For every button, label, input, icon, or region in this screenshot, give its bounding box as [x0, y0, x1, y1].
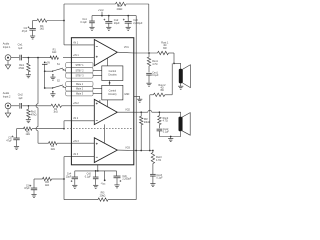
- capacitor Ci1 47uF: [22, 21, 36, 36]
- svg-text:2,200µF: 2,200µF: [133, 22, 143, 25]
- wire GND pin stub: [134, 96, 140, 99]
- label VO1: [124, 46, 129, 49]
- svg-text:20kΩ: 20kΩ: [144, 121, 150, 124]
- ground below Cs5: [93, 185, 98, 188]
- svg-text:1µF: 1µF: [18, 97, 23, 100]
- capacitor Ci3 47uF: [24, 179, 37, 194]
- svg-text:+IN 3: +IN 3: [73, 140, 79, 143]
- label +IN 3 pin: [73, 140, 79, 143]
- wire +Vcc rail: [92, 15, 136, 17]
- label audio input 2: [3, 92, 11, 98]
- resistor R2 1k series: [51, 104, 62, 114]
- wire ch3 bottom feedback rail: [64, 199, 136, 201]
- svg-text:-IN 3: -IN 3: [73, 153, 79, 156]
- svg-text:1kΩ: 1kΩ: [52, 51, 57, 54]
- ground below zobel 1: [146, 83, 151, 86]
- ground below S1: [50, 74, 55, 80]
- label +IN 2 pin: [73, 102, 79, 105]
- wire Ri1/Ci1 row: [33, 20, 64, 22]
- ground at GND pin: [137, 99, 142, 102]
- ground below Cs4: [72, 185, 77, 188]
- label audio input 1: [3, 42, 11, 48]
- label -IN 3 pin: [73, 153, 79, 156]
- svg-text:4.7Ω: 4.7Ω: [163, 120, 168, 123]
- svg-text:VO1: VO1: [124, 46, 129, 49]
- svg-text:Mute 1: Mute 1: [76, 83, 84, 86]
- wire speaker 2 bottom: [159, 131, 180, 136]
- svg-text:0.1µF: 0.1µF: [152, 74, 159, 77]
- svg-text:47µF: 47µF: [22, 30, 28, 33]
- svg-text:Circuitry: Circuitry: [108, 93, 117, 96]
- wire control2 to A2 a: [99, 100, 101, 103]
- wire +Vcc down right side: [135, 16, 137, 200]
- svg-text:20kΩ: 20kΩ: [100, 194, 106, 197]
- label +Vcc terminal: [98, 8, 105, 16]
- wire A1 output: [117, 51, 134, 54]
- wire -Vcc rail: [75, 170, 117, 172]
- ground below zobel 3: [150, 184, 155, 187]
- wire to speaker 1: [173, 53, 181, 69]
- A1 minus marker: [96, 45, 98, 47]
- capacitor Cs1 0.1uF: [80, 16, 94, 27]
- connector RCA jack 2: [5, 103, 11, 109]
- ground below Cs6: [114, 185, 119, 188]
- svg-text:4.7Ω: 4.7Ω: [156, 159, 161, 162]
- label VO2: [125, 108, 130, 111]
- svg-text:1kΩ: 1kΩ: [53, 111, 58, 114]
- wire feedback ch1 right riser: [148, 4, 150, 52]
- resistor Ri2 1k: [24, 127, 33, 136]
- svg-text:0.1µF: 0.1µF: [156, 177, 163, 180]
- label VO3: [125, 146, 130, 149]
- wire to switch S1: [45, 70, 53, 72]
- svg-text:47µF: 47µF: [24, 187, 30, 190]
- capacitor Csn2 0.1uF zobel: [157, 128, 170, 137]
- wire -IN1 vertical: [63, 4, 65, 45]
- svg-text:0.1µF: 0.1µF: [163, 131, 170, 134]
- svg-text:-IN 1: -IN 1: [73, 41, 79, 44]
- label -IN 1 pin: [73, 41, 79, 44]
- wire control2 to A2 b: [107, 100, 109, 107]
- wire A2 output: [117, 111, 134, 113]
- wire A2 input stubs: [71, 106, 94, 121]
- wire A3 input stubs: [71, 143, 94, 156]
- svg-text:4.7Ω: 4.7Ω: [152, 63, 157, 66]
- ground below jack 1: [5, 61, 10, 70]
- ground below Ci1: [30, 36, 35, 39]
- node input1 junction a: [28, 57, 30, 59]
- wire A2 to A3 link: [104, 124, 106, 142]
- svg-text:Mute 3: Mute 3: [76, 93, 84, 96]
- capacitor Cs4 10uF: [66, 171, 78, 185]
- wire input 2 row: [11, 105, 72, 107]
- pin Mute 1: [66, 82, 93, 87]
- block control circuitry 2: [102, 85, 123, 100]
- svg-text:-Vcc: -Vcc: [101, 183, 107, 186]
- svg-text:+IN 1: +IN 1: [73, 54, 79, 57]
- svg-text:+Vcc: +Vcc: [98, 8, 105, 12]
- speaker SPK2: [179, 113, 191, 136]
- wire capsules to control box 1: [93, 70, 102, 75]
- pin Mute 2: [66, 86, 93, 91]
- wire VO1 row: [134, 52, 174, 54]
- capacitor Cs5 0.1uF: [85, 170, 99, 185]
- ground speaker2 zobel2: [168, 136, 173, 142]
- A2 minus marker: [96, 120, 98, 122]
- wire to switch S2: [45, 87, 53, 89]
- wire capsules to control box 2: [93, 89, 102, 94]
- wire A1 input stubs: [71, 45, 94, 58]
- svg-text:STBY 3: STBY 3: [76, 76, 85, 78]
- node ch3 feedback junction: [63, 178, 65, 180]
- svg-text:Input 2: Input 2: [3, 96, 11, 99]
- label GND pin: [124, 94, 129, 96]
- ground below jack 2: [5, 109, 10, 118]
- capacitor Csn1 0.1uF zobel: [146, 71, 159, 83]
- wire input1-to-ch3 vertical with hops: [36, 58, 38, 144]
- op-amp A2: [94, 99, 117, 124]
- wire -IN2 to feedback row: [63, 121, 71, 130]
- pin Mute 3: [66, 91, 93, 96]
- resistor Rsn1 4.7ohm zobel: [147, 53, 158, 72]
- svg-text:-IN 2: -IN 2: [73, 117, 79, 120]
- op-amp A1: [94, 40, 117, 66]
- ground below Cs2: [106, 27, 111, 30]
- svg-text:STBY 1: STBY 1: [76, 65, 85, 67]
- svg-text:1kΩ: 1kΩ: [45, 184, 50, 187]
- node -IN1 junction: [63, 20, 65, 22]
- wire IC to -Vcc rail stub: [97, 165, 99, 172]
- wire control1 to A1: [107, 58, 109, 66]
- wire ch2 feedback row: [17, 128, 65, 130]
- pin STBY 2: [66, 68, 93, 73]
- node S1 junction: [44, 70, 46, 72]
- svg-text:1µF: 1µF: [18, 47, 23, 50]
- wire VO2 row with hop: [134, 110, 181, 113]
- resistor Ri1 1k: [37, 19, 47, 31]
- op-amp A3: [94, 138, 117, 163]
- switch S1: [52, 63, 66, 72]
- svg-text:47µF: 47µF: [6, 139, 12, 142]
- resistor Rout2: [153, 84, 166, 97]
- capacitor Cs6 2200uF: [114, 171, 132, 185]
- resistor Rin1 47k to ground: [19, 58, 31, 75]
- label +IN 1 pin: [73, 54, 79, 57]
- capacitor Cs3 2200uF: [123, 15, 143, 27]
- ground below Cs3: [126, 27, 131, 30]
- node S2 junction: [44, 87, 46, 89]
- resistor Rin2 47k to ground: [27, 106, 37, 120]
- svg-text:Control: Control: [109, 90, 117, 93]
- svg-text:47kΩ: 47kΩ: [31, 113, 37, 116]
- wire control1 to control2: [109, 81, 111, 86]
- wire ch3 input row: [38, 142, 71, 144]
- block control circuitry 1: [102, 66, 123, 81]
- ground below S2: [50, 91, 55, 97]
- capacitor Cs2 10uF: [104, 15, 121, 27]
- capacitor Ci2 47uF: [6, 129, 19, 147]
- op-amp IC U1 package box: [71, 38, 133, 165]
- capacitor Cin2 1uF: [18, 94, 24, 109]
- wire input 1 row: [11, 57, 72, 59]
- ground below Ci2: [14, 147, 19, 150]
- ground below Rin2: [26, 120, 31, 123]
- svg-text:47kΩ: 47kΩ: [19, 67, 25, 70]
- resistor Rsn3 4.7ohm zobel: [151, 151, 162, 175]
- divider dashed bridge line: [67, 128, 134, 130]
- svg-text:0.1µF: 0.1µF: [80, 21, 87, 24]
- ground below Ci3: [31, 195, 36, 198]
- ground below speaker 1: [178, 83, 183, 89]
- svg-text:Circuitry: Circuitry: [108, 74, 117, 77]
- resistor Rout1: [158, 42, 169, 55]
- node input1 junction b: [37, 57, 39, 59]
- svg-text:STBY 2: STBY 2: [76, 70, 85, 72]
- wire -IN1 stub: [64, 44, 71, 46]
- supply +5V terminal: [42, 62, 51, 88]
- node input2 junction: [28, 105, 30, 107]
- ground below Cs1: [89, 27, 94, 30]
- svg-text:1kΩ: 1kΩ: [40, 28, 45, 31]
- wire feedback channel 1 top rail: [64, 3, 149, 5]
- capacitor Csn3 0.1uF zobel: [150, 174, 163, 184]
- wire VO3 row: [134, 150, 154, 152]
- wire speaker 2 top drop: [180, 112, 182, 116]
- resistor Ri3 1k: [43, 177, 52, 187]
- wire A3 output: [117, 149, 134, 151]
- svg-text:Mute 2: Mute 2: [76, 88, 84, 91]
- svg-text:10µF: 10µF: [66, 175, 72, 178]
- svg-text:20kΩ: 20kΩ: [117, 8, 123, 11]
- pin STBY 3: [66, 73, 93, 78]
- speaker SPK1: [179, 65, 191, 88]
- svg-text:10µF: 10µF: [114, 22, 120, 25]
- svg-text:VO2: VO2: [125, 108, 130, 111]
- resistor Rsn2 4.7ohm zobel: [158, 112, 169, 128]
- ground below Rin1: [26, 75, 31, 78]
- svg-text:2,200µF: 2,200µF: [122, 178, 131, 181]
- terminal -Vcc: [101, 171, 107, 186]
- A1 plus marker: [96, 56, 98, 58]
- resistor Rf1 20k in top feedback rail: [116, 2, 127, 11]
- svg-text:1kΩ: 1kΩ: [50, 148, 55, 151]
- svg-text:Input 1: Input 1: [3, 46, 11, 49]
- wire ch3 Ri/Ci row: [34, 178, 64, 180]
- svg-text:1kΩ: 1kΩ: [26, 133, 31, 136]
- resistor R1 1k series: [50, 48, 59, 59]
- pin STBY 1: [66, 63, 93, 68]
- label -IN 2 pin: [73, 117, 79, 120]
- svg-text:+IN 2: +IN 2: [73, 102, 79, 105]
- resistor Rf2 20k bridge: [140, 112, 150, 151]
- connector RCA jack 1: [5, 55, 11, 61]
- svg-text:0.1µF: 0.1µF: [85, 175, 92, 178]
- A3 plus marker: [96, 143, 98, 145]
- wire Rout2 loop: [150, 63, 172, 150]
- svg-text:GND: GND: [124, 94, 129, 96]
- capacitor Cin1 1uF: [18, 44, 24, 61]
- wire -IN3 vertical: [64, 157, 71, 200]
- svg-text:VO3: VO3: [125, 146, 130, 149]
- svg-text:Control: Control: [109, 70, 117, 73]
- switch S2: [52, 79, 66, 88]
- A2 plus marker: [96, 103, 98, 105]
- A3 minus marker: [96, 156, 98, 158]
- resistor R3 1k: [49, 142, 58, 152]
- resistor Rf3 20k: [98, 192, 108, 202]
